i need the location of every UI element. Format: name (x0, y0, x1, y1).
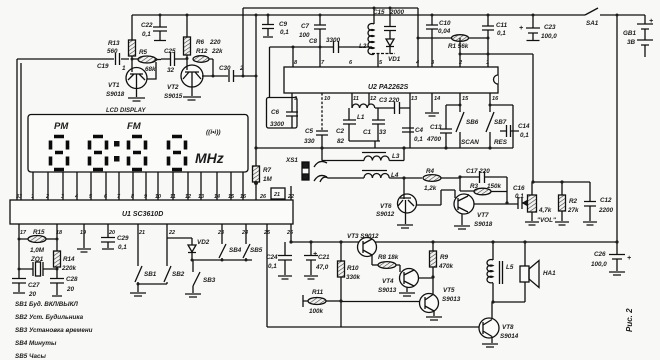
svg-text:4: 4 (74, 194, 78, 200)
wire R5 to VT1 collector (146, 62, 156, 79)
svg-text:0,1: 0,1 (520, 132, 529, 139)
wire pin5 stub (377, 54, 379, 68)
wire audio bus y242 (291, 241, 617, 243)
svg-text:S9015: S9015 (164, 93, 183, 100)
node pin11 stub (351, 93, 353, 108)
ground VOL (525, 222, 539, 225)
svg-text:33: 33 (379, 129, 387, 136)
svg-text:Рис. 2: Рис. 2 (625, 308, 634, 332)
capacitor C29 (101, 224, 115, 249)
svg-text:C3 220: C3 220 (379, 97, 400, 104)
svg-text:R9: R9 (440, 254, 449, 261)
svg-text:15: 15 (462, 96, 469, 102)
capacitor C10 (426, 15, 438, 38)
svg-text:+: + (313, 251, 317, 258)
svg-text:15: 15 (228, 194, 235, 200)
svg-text:L1: L1 (357, 114, 365, 121)
svg-text:S9012: S9012 (376, 211, 395, 218)
wire left feedback line y59 (17, 58, 114, 60)
battery GB1 (637, 15, 653, 57)
svg-text:C11: C11 (496, 22, 508, 29)
svg-text:SB5 Часы: SB5 Часы (15, 353, 46, 360)
wire right rail x617 (616, 15, 618, 242)
diode VD2 (167, 238, 196, 260)
wire pin26 to audio bus (290, 224, 292, 242)
svg-text:((i•i)): ((i•i)) (206, 129, 221, 136)
svg-text:"VOL": "VOL" (537, 217, 557, 224)
svg-text:SB2: SB2 (172, 271, 185, 278)
capacitor C7 (314, 15, 326, 67)
capacitor C22 (153, 15, 167, 41)
capacitor C25 (161, 52, 187, 66)
wire L5 bottom to speaker (493, 301, 525, 303)
ground VT5 (426, 317, 442, 320)
svg-text:R7: R7 (263, 167, 272, 174)
svg-text:32: 32 (167, 67, 175, 74)
svg-text:C16: C16 (513, 185, 525, 192)
svg-text:C7: C7 (301, 23, 310, 30)
switch SB6 (456, 112, 464, 148)
svg-text:SB3 Установка времени: SB3 Установка времени (15, 327, 93, 334)
svg-text:C24: C24 (266, 254, 278, 261)
capacitor C4 (402, 128, 414, 132)
resistor R2 (561, 182, 563, 221)
svg-text:SCAN: SCAN (461, 139, 479, 146)
inductor L5 (492, 242, 494, 260)
svg-text:C6: C6 (271, 109, 280, 116)
svg-text:33: 33 (16, 194, 22, 200)
svg-text:MHz: MHz (195, 150, 224, 166)
LCD display body (28, 115, 248, 173)
svg-text:10: 10 (324, 96, 331, 102)
svg-text:R1 56k: R1 56k (448, 43, 469, 50)
svg-text:VT8: VT8 (502, 324, 514, 331)
svg-text:100,0: 100,0 (541, 33, 557, 40)
svg-text:22: 22 (287, 194, 294, 200)
svg-text:C4: C4 (415, 127, 424, 134)
inductor L1 (352, 104, 375, 108)
svg-text:23: 23 (217, 230, 224, 236)
wire VT6 collector to VT7 base (416, 190, 455, 205)
pin numbers U1 top (16, 192, 294, 200)
svg-text:3B: 3B (627, 39, 636, 46)
svg-text:SB6: SB6 (466, 119, 479, 126)
connector XS1 (302, 162, 309, 180)
wire y38 AGC line (418, 37, 452, 39)
svg-text:82: 82 (337, 138, 345, 145)
svg-text:16: 16 (240, 194, 247, 200)
svg-text:R15: R15 (33, 229, 45, 236)
svg-text:S9018: S9018 (106, 91, 125, 98)
svg-text:330k: 330k (346, 274, 361, 281)
svg-text:FM: FM (127, 121, 142, 132)
capacitor C12 (584, 182, 596, 221)
wire rail x256 (255, 15, 257, 148)
svg-text:C30: C30 (219, 65, 231, 72)
capacitor C13 (440, 105, 460, 148)
svg-text:R4: R4 (426, 168, 435, 175)
svg-text:21: 21 (273, 192, 280, 198)
capacitor C30 (229, 70, 256, 82)
svg-text:R14: R14 (63, 256, 75, 263)
svg-text:2: 2 (45, 194, 49, 200)
capacitor C11 (482, 15, 494, 67)
svg-text:C22: C22 (141, 22, 153, 29)
svg-text:20: 20 (108, 230, 115, 236)
capacitor C24 (278, 242, 292, 279)
transistor VT6 (398, 194, 417, 213)
capacitor C26 (609, 242, 625, 275)
inductor L3 (322, 148, 364, 161)
svg-text:20: 20 (66, 286, 75, 293)
svg-text:L5: L5 (506, 264, 514, 271)
svg-text:4,7k: 4,7k (538, 207, 552, 214)
svg-text:68k: 68k (145, 66, 156, 73)
svg-text:L4: L4 (391, 172, 399, 179)
ground SB1/SB2 (130, 284, 167, 296)
svg-text:0,1: 0,1 (280, 29, 289, 36)
svg-text:560: 560 (107, 48, 118, 55)
wire LCD to U1 pin stubs (33, 172, 243, 200)
varactor VD1 (386, 39, 394, 54)
svg-text:4700: 4700 (426, 136, 442, 143)
switch SB7 (486, 112, 494, 148)
svg-text:SB4 Минуты: SB4 Минуты (15, 340, 57, 347)
svg-text:U1 SC3610D: U1 SC3610D (122, 211, 163, 218)
IC U1 body (10, 200, 293, 224)
svg-text:VD1: VD1 (388, 56, 401, 63)
node pin9 stub (291, 93, 293, 112)
capacitor C21 (304, 242, 318, 279)
switch SB4 (219, 224, 226, 260)
op-amp U2 IC body (284, 67, 498, 93)
svg-text:R2: R2 (569, 198, 578, 205)
svg-text:PM: PM (54, 121, 69, 132)
ground pin19 (77, 224, 91, 252)
svg-text:C2: C2 (336, 128, 345, 135)
svg-text:SA1: SA1 (586, 20, 599, 27)
switch SB3 (185, 260, 201, 297)
svg-text:C12: C12 (600, 197, 612, 204)
pin numbers U1 bottom (20, 230, 294, 236)
svg-text:+: + (519, 25, 523, 32)
node pin16 stub (489, 93, 491, 112)
svg-text:19: 19 (80, 230, 86, 236)
wire SB4/SB5 common y260 (192, 259, 252, 261)
inductor L2 (373, 8, 375, 24)
svg-text:0,1: 0,1 (268, 263, 277, 270)
svg-text:SB4: SB4 (229, 247, 242, 254)
svg-text:R5: R5 (139, 49, 148, 56)
svg-text:3300: 3300 (270, 121, 285, 128)
capacitor C16 (518, 197, 526, 209)
svg-text:220: 220 (209, 39, 221, 46)
ground VT6 (397, 213, 413, 228)
svg-text:C8: C8 (309, 38, 318, 45)
svg-text:C29: C29 (117, 235, 129, 242)
svg-text:22: 22 (168, 230, 175, 236)
svg-text:12: 12 (370, 96, 377, 102)
svg-text:SB1: SB1 (144, 271, 157, 278)
resistor R9 (432, 242, 434, 294)
svg-text:1: 1 (122, 65, 126, 72)
svg-text:100k: 100k (309, 308, 324, 315)
svg-text:VT2: VT2 (167, 84, 179, 91)
svg-text:R6: R6 (196, 39, 205, 46)
svg-text:11: 11 (170, 194, 176, 200)
svg-text:C1: C1 (363, 129, 372, 136)
resistor R3 (460, 177, 474, 191)
svg-text:220k: 220k (61, 265, 77, 272)
transistor VT1 (126, 68, 147, 89)
svg-text:RES: RES (494, 139, 508, 146)
svg-text:+: + (649, 18, 653, 25)
svg-text:GB1: GB1 (623, 30, 636, 37)
wire top bus B (243, 7, 418, 9)
svg-text:27k: 27k (567, 207, 579, 214)
wire IF bus y148 (256, 147, 513, 149)
svg-text:2000: 2000 (389, 9, 405, 16)
wire mixer bottom y141 (349, 141, 380, 148)
resistor R5 (132, 58, 138, 60)
ground C12 (583, 222, 597, 225)
node pin13 stub (409, 93, 411, 148)
svg-text:L3: L3 (392, 153, 400, 160)
svg-text:0,1: 0,1 (515, 193, 524, 200)
svg-text:11: 11 (353, 96, 359, 102)
svg-text:SB5: SB5 (250, 247, 263, 254)
wire y54 line to volume rail (460, 53, 533, 55)
resistor R13 (131, 15, 133, 59)
svg-text:3300: 3300 (326, 37, 341, 44)
svg-text:C25: C25 (164, 48, 176, 55)
svg-text:R11: R11 (312, 289, 324, 296)
resistor R14 (56, 224, 58, 278)
svg-text:U2 PA2262S: U2 PA2262S (368, 84, 409, 91)
svg-text:330: 330 (304, 138, 315, 145)
svg-text:C28: C28 (66, 276, 78, 283)
svg-text:SB3: SB3 (203, 277, 216, 284)
ground VT7 (454, 214, 470, 229)
capacitor C17 (460, 171, 507, 183)
svg-text:1: 1 (486, 60, 489, 66)
wire VT6 base drop (403, 178, 405, 194)
svg-text:XS1: XS1 (285, 157, 298, 164)
wire bus B left drop (242, 8, 244, 76)
wire C6 box feed (269, 47, 271, 98)
transistor VT4 (400, 269, 419, 288)
wire pin1 riser (20, 63, 22, 200)
ground R2 (555, 222, 569, 225)
pin numbers U2 top (294, 60, 489, 66)
transistor VT3 (358, 238, 377, 257)
svg-text:ZQ1: ZQ1 (30, 256, 44, 263)
svg-text:+: + (627, 255, 631, 262)
svg-text:13: 13 (411, 96, 418, 102)
svg-text:C10: C10 (439, 20, 451, 27)
svg-text:20: 20 (28, 291, 37, 298)
node pin14 stub with ground (425, 93, 439, 116)
svg-text:18: 18 (56, 230, 62, 236)
svg-text:1,0M: 1,0M (30, 247, 45, 254)
switch SB1 (135, 224, 142, 284)
wire pin22 stub (290, 186, 292, 200)
svg-text:R10: R10 (347, 265, 359, 272)
capacitor C27 (12, 279, 26, 294)
svg-text:VT6: VT6 (380, 203, 392, 210)
resistor R15 (19, 224, 28, 239)
capacitor C15 (384, 8, 396, 39)
crystal ZQ1 (19, 262, 57, 276)
capacitor C6 (267, 98, 298, 129)
ground VT1 (128, 87, 145, 101)
svg-text:L2: L2 (359, 43, 367, 50)
node pin12 stub (368, 93, 370, 105)
wire SB7 box edge (490, 105, 513, 148)
svg-text:C15: C15 (373, 9, 385, 16)
capacitor C14 (500, 125, 519, 137)
wire pin2 stub (459, 38, 461, 67)
wire R10 bottom to y327 (340, 301, 342, 327)
svg-text:21: 21 (138, 230, 145, 236)
wire y47 IF line (270, 46, 334, 48)
resistor R4 (423, 175, 441, 182)
transistor VT5 (420, 294, 439, 313)
ground VT8 (482, 344, 498, 347)
svg-text:25: 25 (263, 230, 271, 236)
capacitor C19 (116, 53, 130, 65)
transistor VT2 (181, 65, 203, 87)
wire alarm bus y327 (267, 326, 479, 328)
transistor VT7 (454, 194, 474, 214)
svg-text:SB2 Уст. Будильника: SB2 Уст. Будильника (15, 313, 84, 321)
resistor R12 (193, 56, 209, 63)
svg-text:0,1: 0,1 (497, 30, 506, 37)
transistor VT8 (479, 318, 499, 338)
svg-text:10: 10 (155, 194, 161, 200)
svg-text:1M: 1M (263, 176, 273, 183)
LCD colon (114, 141, 120, 147)
node pin10 stub (321, 93, 323, 131)
svg-text:C27: C27 (28, 282, 40, 289)
svg-text:12: 12 (185, 194, 191, 200)
svg-text:SB1 Буд. ВКЛ/ВЫКЛ: SB1 Буд. ВКЛ/ВЫКЛ (15, 300, 78, 308)
svg-text:16: 16 (492, 96, 499, 102)
svg-text:S9018: S9018 (474, 221, 493, 228)
capacitor C3 (375, 102, 410, 114)
svg-text:VT5: VT5 (443, 287, 455, 294)
switch SA1 (585, 8, 598, 15)
svg-text:3: 3 (61, 194, 64, 200)
svg-text:9: 9 (144, 194, 147, 200)
ground VT4 (399, 288, 415, 297)
svg-text:0,1: 0,1 (118, 244, 127, 251)
svg-text:C26: C26 (594, 251, 606, 258)
svg-text:VT1: VT1 (108, 82, 120, 89)
svg-text:22k: 22k (211, 48, 223, 55)
capacitor C23 (526, 15, 540, 41)
svg-text:14: 14 (214, 194, 220, 200)
wire VT5 base line (341, 301, 420, 303)
wire pin33 riser (16, 59, 18, 200)
svg-text:R13: R13 (108, 40, 120, 47)
svg-text:C13: C13 (430, 124, 442, 131)
svg-text:LCD DISPLAY: LCD DISPLAY (106, 108, 147, 114)
svg-text:2: 2 (239, 65, 244, 72)
svg-text:C14: C14 (518, 123, 530, 130)
svg-text:1: 1 (31, 194, 34, 200)
resistor R8 (372, 264, 378, 266)
svg-text:VT3 S9012: VT3 S9012 (347, 233, 379, 240)
svg-text:VD2: VD2 (197, 239, 210, 246)
svg-text:C23: C23 (544, 24, 556, 31)
capacitor C2 (343, 108, 356, 141)
svg-text:470k: 470k (438, 263, 454, 270)
resistor R1 (452, 35, 469, 42)
svg-text:24: 24 (241, 230, 248, 236)
svg-text:2200: 2200 (598, 207, 614, 214)
node pin15 stub (459, 93, 461, 112)
wire pot top bus y182 (533, 181, 590, 183)
svg-text:C17 220: C17 220 (466, 168, 490, 175)
resistor R10 (340, 242, 342, 301)
svg-text:S9013: S9013 (378, 287, 397, 294)
wire bus B right drop (417, 8, 419, 67)
capacitor C8 (334, 41, 373, 53)
potentiometer VOL 4.7k (526, 202, 528, 204)
capacitor C28 (50, 279, 64, 297)
svg-text:1,2k: 1,2k (424, 185, 437, 192)
wire pin8 stub (292, 47, 294, 67)
svg-text:C5: C5 (305, 128, 314, 135)
svg-text:26: 26 (259, 194, 267, 200)
node pin21 box (271, 188, 285, 199)
svg-text:8: 8 (131, 194, 134, 200)
svg-text:13: 13 (198, 194, 204, 200)
svg-text:0,1: 0,1 (142, 31, 151, 38)
wire VT2 collector (202, 75, 228, 77)
wire L2/VD1 junction (372, 53, 395, 55)
wire pin3 stub (431, 38, 433, 67)
svg-text:17: 17 (20, 230, 27, 236)
wire VT8 collector riser (491, 302, 493, 318)
svg-text:26: 26 (286, 230, 294, 236)
svg-text:C21: C21 (318, 254, 330, 261)
svg-text:R3: R3 (470, 183, 479, 190)
ground VT2 (183, 86, 201, 100)
svg-text:S9013: S9013 (442, 296, 461, 303)
svg-text:SB7: SB7 (494, 119, 507, 126)
svg-text:100,0: 100,0 (591, 261, 607, 268)
svg-text:C9: C9 (279, 21, 288, 28)
capacitor C9 (262, 15, 274, 37)
svg-text:14: 14 (434, 96, 441, 102)
switch SB2 (164, 224, 171, 284)
svg-text:HA1: HA1 (543, 270, 556, 277)
svg-text:VT4: VT4 (382, 278, 394, 285)
wire alarm rail x267 (266, 224, 268, 327)
resistor R7 (255, 148, 257, 200)
resistor R11 (303, 295, 308, 307)
inductor L4 (320, 177, 364, 182)
svg-text:150k: 150k (487, 183, 502, 190)
svg-text:0,1: 0,1 (414, 136, 423, 143)
svg-text:R12: R12 (196, 48, 208, 55)
wire rail x533 (532, 54, 534, 182)
svg-text:VT7: VT7 (477, 212, 489, 219)
svg-text:47,0: 47,0 (315, 264, 329, 271)
switch SB5 (243, 224, 250, 260)
